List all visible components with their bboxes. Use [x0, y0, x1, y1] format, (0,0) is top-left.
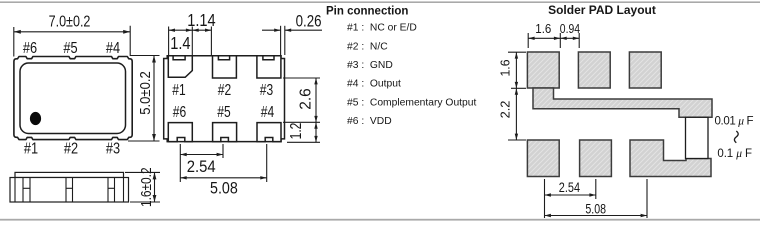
- svg-text:Pin connection: Pin connection: [326, 6, 408, 18]
- dim 2.6/1.2 extension mid: [283, 121, 320, 123]
- svg-text:#5 : Complementary Output: #5 : Complementary Output: [347, 97, 476, 108]
- svg-text:2.6: 2.6: [297, 88, 314, 110]
- svg-text:0.26: 0.26: [296, 12, 322, 31]
- dim 2.6 extension top: [283, 77, 320, 79]
- dim 5.08 line: [545, 215, 648, 217]
- pin list: [347, 23, 476, 128]
- bottom view package outline with stepped corners: [164, 56, 285, 142]
- dim 0.26 right leader line: [285, 29, 322, 31]
- svg-text:7.0±0.2: 7.0±0.2: [49, 13, 91, 31]
- dim 5.08 line: [180, 177, 266, 179]
- solder pad top #1: [527, 52, 559, 88]
- dim 5.08 extension right: [266, 144, 268, 182]
- svg-text:#5: #5: [63, 40, 77, 58]
- svg-text:0.1 μ F: 0.1 μ F: [717, 148, 752, 160]
- pad #5: [213, 123, 237, 142]
- svg-text:#5: #5: [217, 103, 231, 121]
- svg-text:#3: #3: [106, 140, 120, 158]
- left dim 1.6/2.2 vertical line: [515, 52, 517, 140]
- svg-text:1.4: 1.4: [170, 34, 190, 54]
- dim 1.2 extension bottom: [287, 141, 320, 143]
- solder pad top #3: [629, 52, 661, 88]
- dim 1.6/0.94 extension mid: [559, 33, 561, 48]
- solder pad bottom #2: [580, 140, 612, 177]
- right figure dimension arrows: [515, 37, 647, 218]
- pad #3: [257, 56, 281, 78]
- dim 2.54 extension right: [595, 179, 597, 199]
- svg-text:#4: #4: [106, 40, 120, 58]
- svg-text:5.0±0.2: 5.0±0.2: [136, 71, 153, 115]
- dimension 5.0±0.2 bottom extension: [128, 140, 160, 142]
- dim 2.54 line: [180, 154, 223, 156]
- dim 2.54 extension right: [222, 144, 224, 158]
- svg-text:#1 : NC or E/D: #1 : NC or E/D: [347, 23, 417, 34]
- svg-text:#1: #1: [172, 82, 186, 100]
- VDD trace from pad 1: [533, 88, 712, 117]
- svg-text:#2: #2: [218, 82, 232, 100]
- dim 2.54 extension left: [544, 179, 546, 218]
- dim extension pad2 left: [210, 27, 212, 56]
- bypass capacitor leads: [686, 117, 709, 158]
- dimension 5.0±0.2 line: [153, 56, 155, 142]
- pad #6: [168, 123, 192, 142]
- pad #2: [213, 56, 237, 78]
- svg-text:#4 : Output: #4 : Output: [347, 79, 401, 90]
- dim 0.26 extension right: [284, 26, 286, 55]
- svg-text:1.6: 1.6: [498, 59, 512, 76]
- svg-text:0.94: 0.94: [560, 22, 581, 36]
- svg-text:1.6±0.2: 1.6±0.2: [138, 167, 154, 207]
- svg-text:1.6: 1.6: [535, 22, 551, 37]
- dimension 1.6±0.2 line: [154, 172, 156, 202]
- pin 1 index dot: [30, 112, 41, 125]
- package inner lid outline: [20, 63, 126, 134]
- dim 5.08 extension right: [646, 179, 648, 218]
- dimension 7.0±0.2 right extension: [130, 26, 159, 56]
- svg-text:0.01 μ F: 0.01 μ F: [715, 116, 754, 128]
- dim 1.6 (pad width) extension left: [527, 33, 529, 48]
- dimension 1.6±0.2 bottom extension: [130, 201, 160, 203]
- svg-text:#2 : N/C: #2 : N/C: [347, 41, 388, 52]
- dim 0.26 extension left: [280, 26, 282, 55]
- dim 1.6/0.94 line: [528, 37, 579, 39]
- page bottom border line: [0, 219, 760, 221]
- pad #1 (chamfered): [168, 56, 192, 78]
- package outer body outline with castellation notches: [14, 57, 132, 140]
- svg-text:5.08: 5.08: [210, 180, 238, 198]
- svg-text:#2: #2: [64, 140, 78, 158]
- capacitor range squiggle: [734, 131, 738, 143]
- pad #4: [257, 123, 281, 142]
- svg-text:#4: #4: [261, 103, 275, 121]
- side view right end metallization line: [123, 178, 125, 203]
- svg-text:#1: #1: [24, 140, 38, 158]
- solder pad bottom #3 with notch: [630, 140, 711, 177]
- solder pad top #2: [578, 52, 610, 88]
- dim extension pad1 right: [191, 27, 193, 56]
- solder pad bottom #1: [527, 140, 559, 177]
- svg-text:5.08: 5.08: [585, 201, 606, 217]
- svg-text:#6 : VDD: #6 : VDD: [347, 116, 392, 127]
- svg-text:2.54: 2.54: [187, 158, 216, 176]
- middle figure dimension arrows: [169, 29, 318, 180]
- svg-text:2.2: 2.2: [497, 101, 512, 119]
- dimension 1.6±0.2 top extension: [125, 171, 160, 173]
- dim 0.26 left arrow line: [262, 29, 281, 31]
- page top border line: [0, 1, 760, 3]
- left dim extension bottom: [508, 139, 526, 141]
- dim 2.6/1.2 shared vertical line: [315, 78, 317, 142]
- dim 2.54 line: [545, 194, 596, 196]
- dimension 7.0±0.2 line: [14, 31, 130, 33]
- dimension 7.0±0.2 arrows: [14, 30, 156, 141]
- side view castellation column 3: [107, 178, 109, 203]
- side view left end metallization line: [14, 178, 16, 203]
- side view castellation column 2: [65, 178, 67, 203]
- svg-text:#3 : GND: #3 : GND: [347, 60, 393, 71]
- svg-text:#3: #3: [260, 82, 274, 100]
- side view lid: [15, 172, 124, 177]
- svg-text:Solder PAD Layout: Solder PAD Layout: [548, 3, 656, 17]
- dim 0.94 extension right: [578, 33, 580, 48]
- dimension 1.6±0.2 arrows: [153, 172, 157, 202]
- svg-text:#6: #6: [23, 40, 37, 58]
- left dim extension top: [508, 51, 526, 53]
- svg-text:2.54: 2.54: [559, 180, 580, 196]
- svg-text:#6: #6: [173, 103, 187, 121]
- dim 1.4/1.14 shared line: [169, 29, 212, 31]
- dimension 7.0±0.2 left extension: [13, 27, 15, 57]
- dim 2.54 extension left: [179, 144, 181, 182]
- side view body: [10, 178, 129, 203]
- left dim extension mid: [511, 87, 526, 89]
- svg-text:1.14: 1.14: [187, 11, 215, 31]
- svg-text:1.2: 1.2: [286, 122, 304, 139]
- side view castellation column 1: [22, 178, 24, 203]
- dim extension pad1 left: [168, 27, 170, 56]
